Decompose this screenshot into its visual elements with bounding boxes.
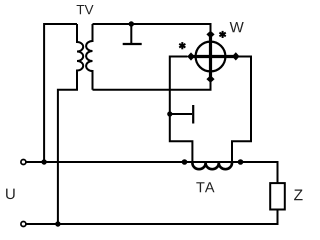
node TA primary right dot bbox=[238, 159, 244, 165]
ground symbol (top) bbox=[130, 24, 132, 43]
transformer TA secondary winding humps bbox=[192, 163, 232, 169]
asterisk mark near wattmeter left terminal bbox=[179, 42, 185, 49]
wire vertical from main-line dot up to TV primary top bbox=[44, 24, 77, 162]
wire wattmeter left terminal down to TA secondary left bbox=[170, 57, 193, 164]
label Z bbox=[294, 190, 302, 201]
resistor Z (load box) bbox=[270, 183, 285, 209]
label W bbox=[230, 22, 244, 32]
wire wattmeter right terminal down to TA secondary right bbox=[232, 57, 251, 164]
node junction dot ground tap 2 bbox=[167, 111, 172, 116]
node junction dot ground tap bbox=[129, 21, 134, 26]
node junction dot on main line (TV primary tap) bbox=[41, 159, 46, 164]
label U bbox=[6, 189, 15, 199]
wire Z bottom to lower rail bbox=[27, 210, 278, 225]
wattmeter arrowhead left bbox=[187, 52, 195, 60]
wattmeter arrowhead bottom bbox=[206, 75, 214, 83]
asterisk mark near wattmeter top terminal bbox=[219, 31, 225, 38]
terminal upper U bbox=[21, 160, 26, 165]
transformer TV primary winding bbox=[58, 24, 83, 224]
wattmeter W movement circle bbox=[196, 42, 226, 72]
wire TV secondary top to wattmeter top bbox=[93, 24, 211, 33]
node junction dot lower wire bbox=[55, 221, 60, 226]
wire main line from upper terminal through TA primary to Z bbox=[27, 162, 278, 183]
wire TV secondary bottom to wattmeter bottom bbox=[93, 80, 211, 90]
transformer TV secondary winding bbox=[86, 24, 92, 90]
wattmeter cross horizontal line bbox=[189, 55, 237, 58]
label TA bbox=[196, 182, 214, 192]
wattmeter cross vertical line bbox=[209, 33, 212, 80]
wattmeter arrowhead right bbox=[232, 52, 240, 60]
terminal lower U bbox=[21, 222, 26, 227]
label TV bbox=[77, 5, 94, 14]
ground symbol (middle, rotated) bbox=[170, 113, 192, 115]
wattmeter arrowhead top bbox=[206, 31, 214, 39]
node TA primary left dot bbox=[182, 159, 188, 165]
